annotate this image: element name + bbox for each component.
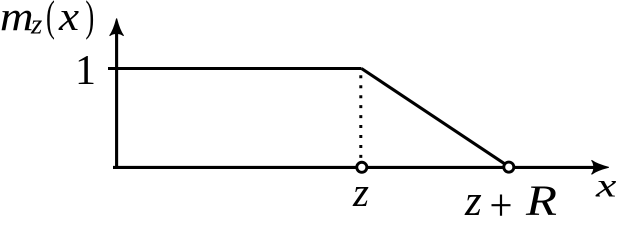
open circle at z+R bbox=[504, 162, 514, 172]
y-axis arrowhead bbox=[110, 19, 124, 36]
y-axis bbox=[115, 26, 118, 167]
label z+R: plus sign bbox=[492, 195, 511, 216]
svg-text:z: z bbox=[464, 178, 482, 219]
x-axis bbox=[113, 166, 598, 169]
svg-text:(: ( bbox=[46, 0, 55, 40]
svg-text:m: m bbox=[0, 0, 34, 39]
svg-text:z: z bbox=[30, 8, 42, 40]
open circle at z bbox=[357, 162, 367, 172]
diagonal ramp from (z,1) to (z+R,0) bbox=[362, 69, 505, 164]
svg-text:): ) bbox=[85, 0, 94, 40]
tick at 1 + top plateau line bbox=[108, 67, 362, 70]
svg-text:x: x bbox=[58, 0, 79, 40]
dotted vertical line at z bbox=[359, 75, 362, 158]
svg-text:1: 1 bbox=[75, 48, 96, 94]
x-axis arrowhead bbox=[592, 160, 609, 174]
svg-text:z: z bbox=[352, 169, 369, 215]
svg-text:R: R bbox=[525, 178, 557, 219]
svg-text:x: x bbox=[595, 166, 617, 204]
